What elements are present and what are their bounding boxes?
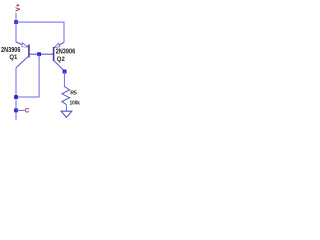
svg-text:Q2: Q2 [57, 56, 66, 63]
wire output stub [16, 109, 25, 111]
svg-text:R5: R5 [70, 90, 77, 96]
svg-text:Q1: Q1 [9, 54, 18, 61]
wire left vertical lower [15, 68, 17, 120]
transistor Q2 emitter [58, 43, 64, 46]
node V+ junction [14, 20, 18, 24]
transistor Q2 base bar [53, 47, 55, 61]
transistor Q1 collector [16, 56, 29, 68]
ground [61, 111, 72, 117]
wire bases link [29, 53, 54, 55]
transistor Q1 emitter arrow [22, 43, 29, 47]
node bases junction [37, 52, 41, 56]
wire top rail [16, 22, 64, 42]
svg-text:V+: V+ [15, 3, 22, 11]
wire to resistor [63, 72, 65, 88]
transistor Q2 collector [54, 61, 65, 72]
transistor Q1 base bar [28, 45, 30, 58]
resistor R5 zigzag [62, 86, 70, 104]
svg-text:100k: 100k [70, 100, 81, 106]
svg-text:C: C [25, 107, 30, 114]
node collector junction [63, 70, 67, 74]
transistor Q2 emitter arrow [54, 43, 60, 47]
node left rail junction [14, 95, 18, 99]
transistor Q1 emitter [16, 42, 23, 45]
wire bases drop [16, 54, 39, 97]
wire left vertical upper [15, 22, 17, 42]
wire resistor to ground [65, 105, 67, 112]
node output junction [14, 109, 18, 113]
power flag V+ [15, 3, 22, 11]
svg-text:2N3906: 2N3906 [56, 48, 76, 55]
background [0, 0, 87, 120]
wire V+ stub [15, 13, 17, 22]
